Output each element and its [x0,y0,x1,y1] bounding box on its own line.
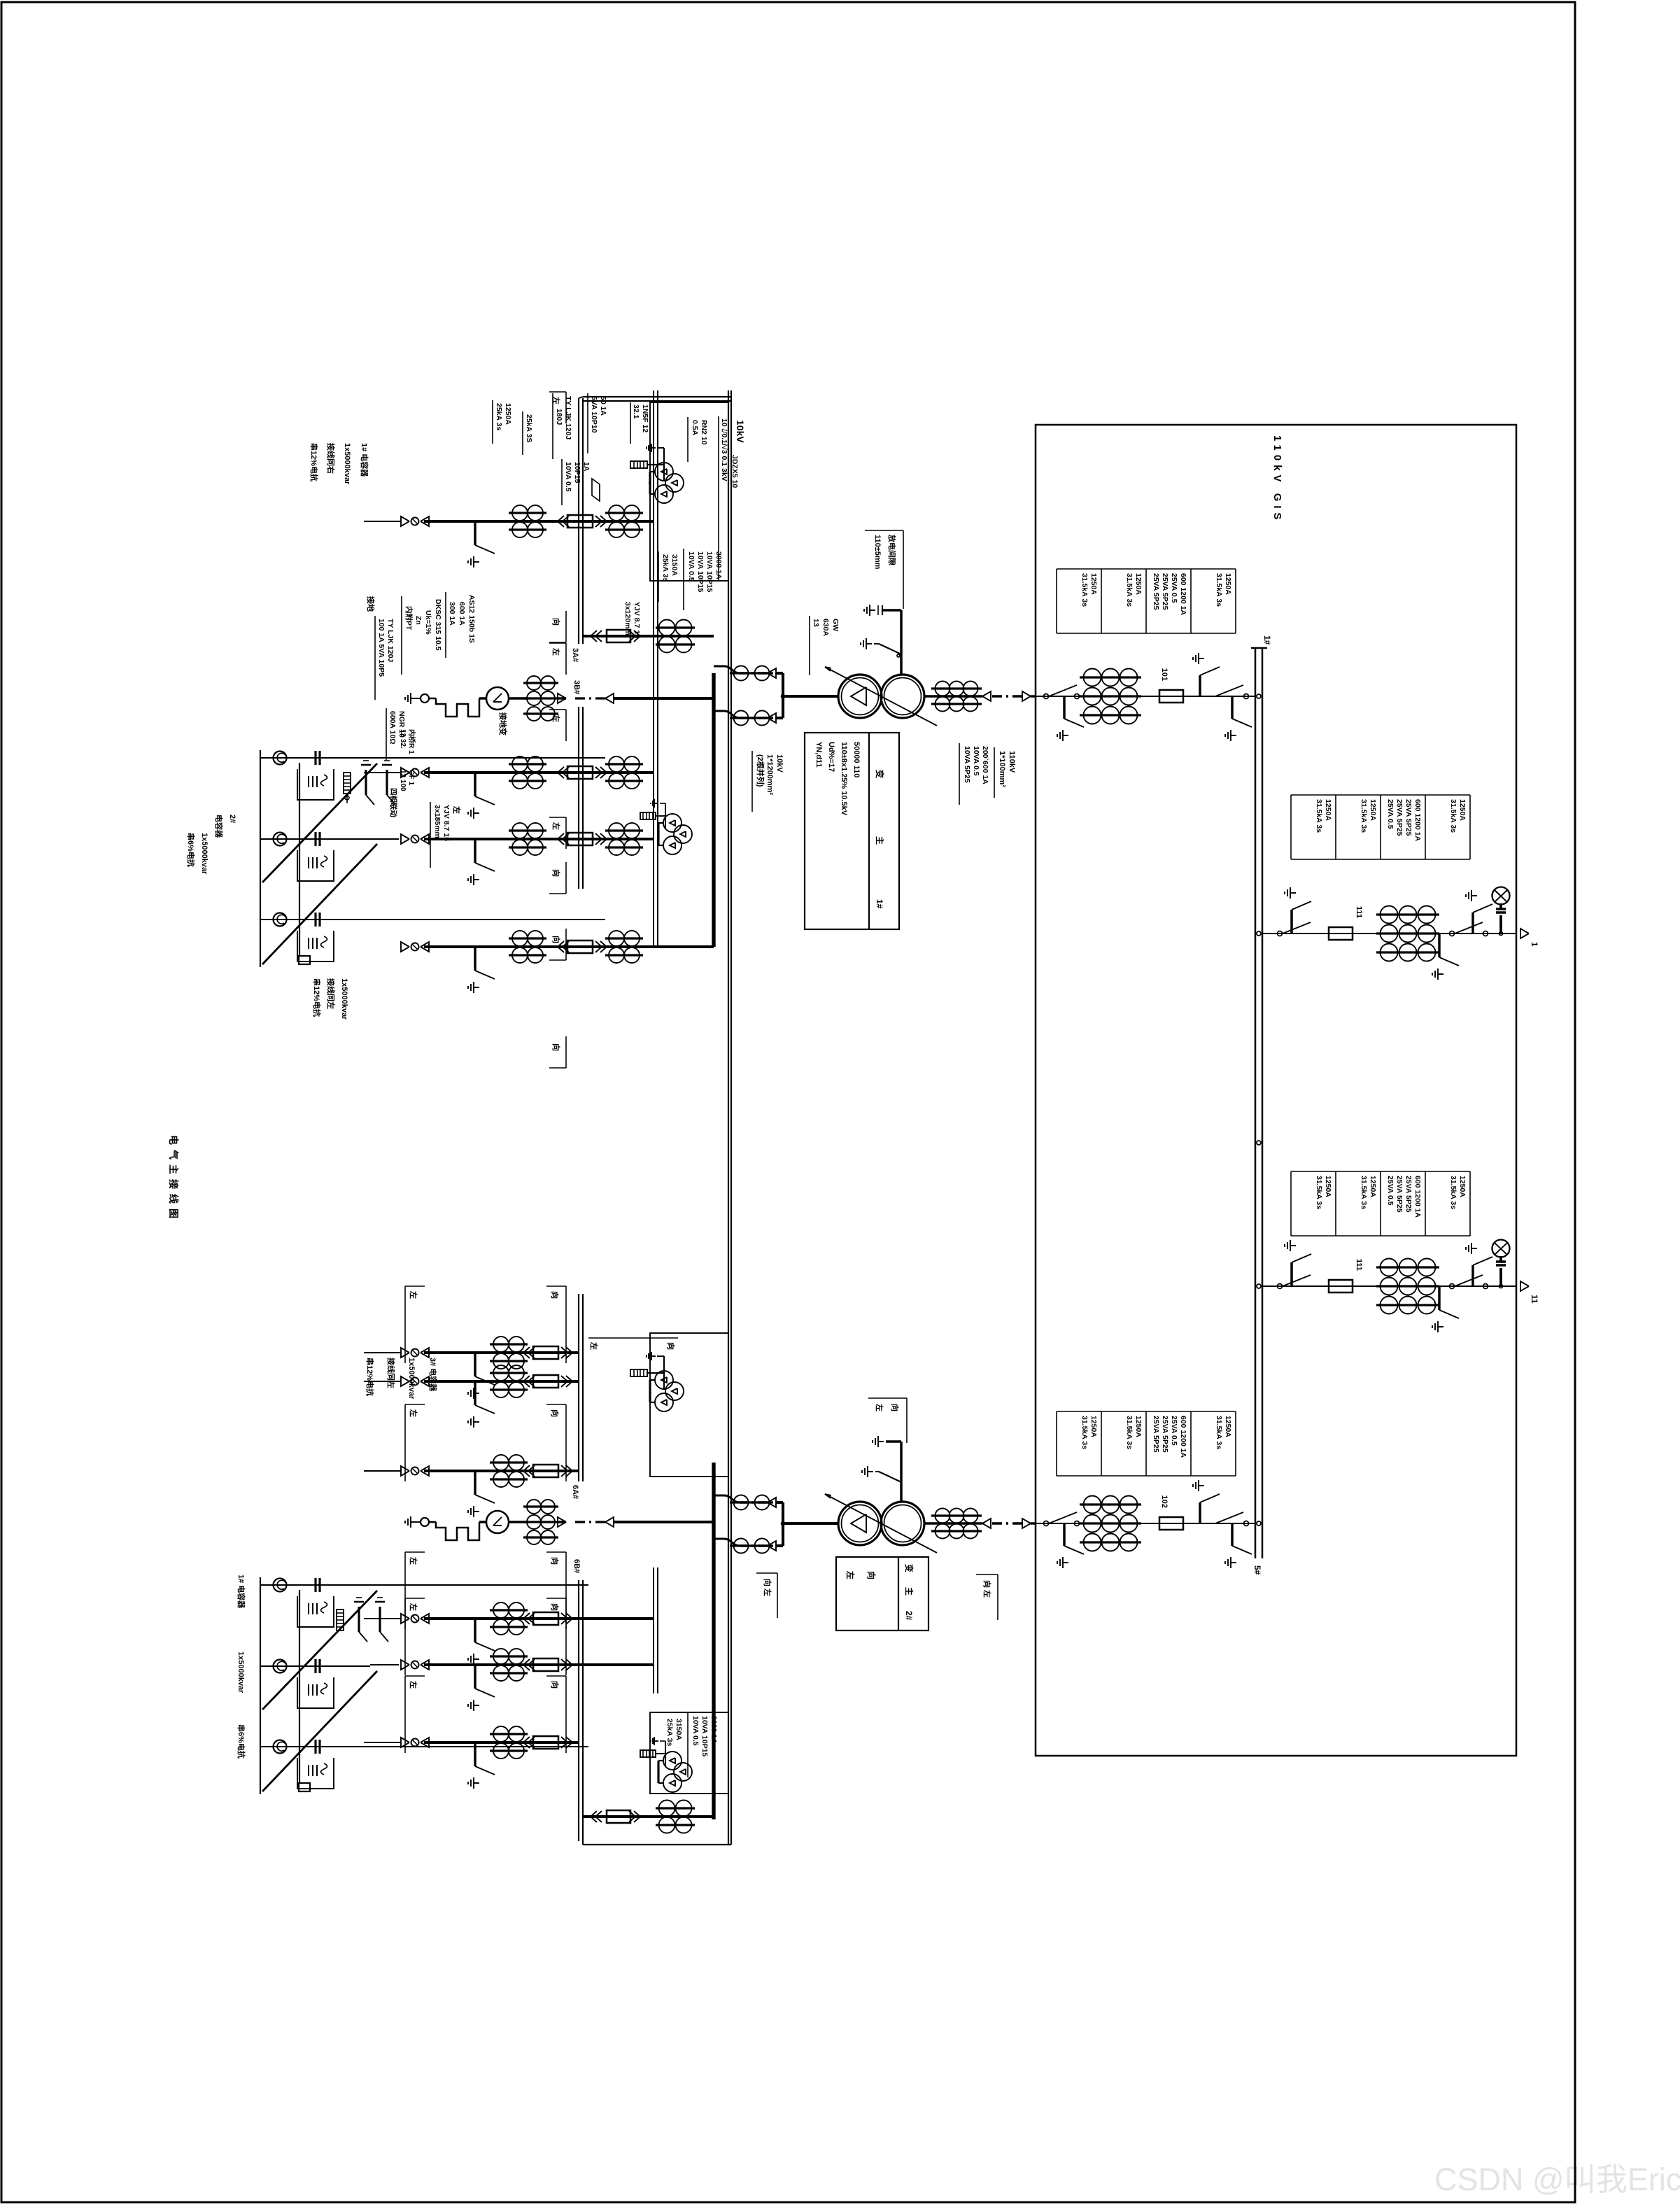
PT cluster arrester ground [665,1741,666,1766]
cable termination transformer side [982,691,991,701]
earthing transformer bay wire [614,697,714,700]
disconnector 2 tx bay 102 [1075,1521,1080,1526]
feeder drawout breaker [566,1659,572,1670]
wire 110kV line bay 11 riser [1262,1285,1516,1287]
tap changer arrow 2# [825,1494,937,1553]
svg-text:左: 左 [875,1403,884,1411]
svg-text:接线同左: 接线同左 [326,978,336,1009]
svg-text:左: 左 [845,1570,856,1579]
feeder drawout breaker [566,1347,572,1358]
neutral earthing disconnector [879,644,901,654]
capacitor bank phase 2 reactor bars [316,1684,318,1696]
svg-text:110kV: 110kV [1008,751,1016,773]
svg-text:600 1200 1A: 600 1200 1A [1179,573,1187,616]
svg-text:25kA 3S: 25kA 3S [525,414,533,442]
feeder tail wire [364,1470,401,1472]
svg-text:接地变: 接地变 [498,712,508,735]
spec label cell [1191,1411,1236,1412]
10kV cable S-entry into switchgear [714,1539,740,1546]
capacitor bank inner rail with tail fuse [299,1590,300,1783]
feeder ct pair upper [605,937,643,939]
110kV cable dash-dot [991,695,1022,697]
earthing transformer circle [509,1521,528,1523]
svg-text:1# 电容器: 1# 电容器 [360,443,369,477]
svg-text:3x185mm²: 3x185mm² [433,805,442,841]
label frame zuo [404,1404,406,1481]
PT fuse crosshatch II [630,1369,647,1376]
svg-text:AS12 150b 1S: AS12 150b 1S [467,595,476,643]
svg-text:31.5kA 3s: 31.5kA 3s [1125,1416,1134,1449]
svg-text:四相联动: 四相联动 [389,788,398,817]
svg-text:串6%电抗: 串6%电抗 [237,1724,246,1759]
feeder earthing switch [474,1665,476,1689]
cable termination at GIS side [1031,1522,1036,1524]
svg-text:1x5000kvar: 1x5000kvar [340,978,348,1020]
label frame xiang-zuo PT cell II [588,1337,678,1339]
10kV switchgear enclosure top edge double line [730,390,732,1845]
svg-text:3000 1A: 3000 1A [710,1716,718,1744]
svg-text:左: 左 [409,1290,418,1299]
capacitor bank phase 1 reactor bars [316,1603,318,1614]
svg-text:CSDN @叫我Eric: CSDN @叫我Eric [1434,2162,1680,2197]
capacitor bank phase 2 riser [260,838,377,840]
current transformers bay 1 [1376,913,1439,915]
capacitor bank phase 3 discharge coil [274,913,287,927]
feeder ct pair lower [490,1733,528,1735]
bus riser bay wire [583,1815,714,1818]
110kV cable dash-dot [991,1522,1022,1524]
svg-text:GF 1: GF 1 [407,770,415,786]
svg-text:32.1: 32.1 [632,404,640,419]
ground switch right bay 11 [1438,1286,1440,1310]
riser drawout breaker [591,630,597,642]
feeder drawout breaker [600,941,607,952]
ground switch a tx bay 102 [1231,1523,1233,1546]
svg-text:1250A: 1250A [1369,799,1377,821]
svg-text:10VA 10P15: 10VA 10P15 [696,551,705,593]
capacitor bank phase 2 capacitor [318,1659,320,1673]
svg-text:3150A: 3150A [670,554,679,576]
busbar junction node [1257,694,1261,698]
10kV cable termination arrow [776,672,783,675]
feeder bay wire [424,1617,654,1620]
svg-text:50 1A: 50 1A [599,396,607,416]
disconnector tx bay 101 [1244,694,1249,699]
svg-text:10kV: 10kV [735,420,746,443]
PT three-phase trefoil I [665,474,684,492]
PT arrester and ground I [647,464,664,465]
line exit arrow 11 [1520,1281,1529,1291]
10kV cable dash-dot drop [740,1544,768,1547]
feeder earthing switch [474,773,476,796]
PT cell box 6B end [650,1712,728,1794]
bus riser bay wire [583,635,714,637]
capacitor bank phase 1 discharge coil [274,1579,287,1592]
disconnector line bay 11 [1283,1275,1311,1286]
10kV main busbar section I [712,673,715,947]
PT trefoil cluster [674,825,692,843]
svg-text:101: 101 [1160,668,1169,681]
svg-text:1250A: 1250A [1089,573,1098,595]
svg-text:10kV: 10kV [775,754,784,773]
svg-text:内桥R 1: 内桥R 1 [407,729,416,754]
svg-text:向 左: 向 左 [763,1579,772,1596]
svg-text:向: 向 [866,1571,877,1579]
svg-text:1x5000kvar: 1x5000kvar [407,1358,416,1400]
svg-text:3A#: 3A# [571,648,579,662]
surge arrester bay 11 [1499,1285,1503,1288]
capacitor bank phase 3 riser [260,1746,588,1747]
spec label cell [1425,794,1470,796]
feeder cable termination [421,1660,429,1670]
svg-text:变: 变 [904,1564,915,1572]
neutral grounding resistor meander [479,1521,486,1523]
svg-text:YJV 8.7 15: YJV 8.7 15 [633,602,641,638]
earthing tx cable termination lower [558,1517,566,1527]
capacitor bank inner rail with tail fuse [299,763,300,956]
svg-text:11: 11 [1530,1295,1539,1304]
feeder ct pair lower [509,763,546,765]
10kV cable S-entry into switchgear [714,711,740,718]
svg-text:600 1200 1A: 600 1200 1A [1413,1176,1422,1218]
capacitor bank phase 3 capacitor [318,1740,320,1754]
disconnector 2 bay 1 [1450,931,1455,936]
svg-text:向: 向 [550,1681,560,1689]
capacitor bank phase 2 riser [260,1665,370,1667]
earthing tx cable termination lower [558,693,566,703]
svg-text:25VA 0.5: 25VA 0.5 [1170,573,1178,603]
feeder bay wire [424,945,714,948]
capacitor bank phase 2 bracket loop [297,1677,334,1708]
svg-text:(2根并列): (2根并列) [756,754,765,787]
svg-text:左: 左 [452,805,462,814]
svg-text:1250A: 1250A [1134,573,1143,595]
svg-text:3000 1A: 3000 1A [714,551,723,579]
svg-text:1# 电容器: 1# 电容器 [237,1575,246,1609]
main transformer 2# LV winding circle [838,1502,882,1545]
svg-text:180J: 180J [555,409,563,425]
svg-text:向 左: 向 左 [982,1580,992,1598]
feeder earthing switch [474,1471,476,1495]
svg-text:10P15: 10P15 [573,462,581,484]
10kV PT cell box I [650,402,728,581]
feeder cable termination [421,1348,429,1358]
wire 110kV line bay 1 riser [1262,933,1516,934]
svg-text:31.5kA 3s: 31.5kA 3s [1080,1416,1089,1449]
neutral discharge gap branch [882,609,901,611]
svg-text:3# 电容器: 3# 电容器 [428,1358,438,1392]
svg-text:10VA 0.5: 10VA 0.5 [687,551,696,582]
svg-text:0.5A: 0.5A [691,420,699,436]
label frame zuo [404,1552,406,1629]
svg-text:111: 111 [1355,906,1363,918]
svg-text:12 100: 12 100 [399,770,407,791]
spec label cell [1146,568,1191,570]
svg-text:31.5kA 3s: 31.5kA 3s [1125,573,1134,607]
PT arrester and ground II [647,1372,664,1374]
svg-text:向: 向 [550,1291,560,1299]
label frame xiang [565,1404,567,1481]
current transformers 110kV side [931,1514,982,1516]
svg-text:左: 左 [551,647,561,656]
svg-text:1250A: 1250A [1224,573,1232,595]
label frame xiang [565,1036,567,1068]
busbar junction node [1257,1284,1261,1288]
current transformers tx bay 102 [1080,1503,1141,1505]
10kV cable dash-dot drop [740,1501,768,1503]
svg-text:10 ⌰0.1/√3 0.1 3kV: 10 ⌰0.1/√3 0.1 3kV [720,418,728,481]
capacitor bank bottom rail [260,750,261,967]
feeder cable termination [421,1376,429,1386]
feeder cable termination [421,1614,429,1623]
label frame xiang [565,1676,567,1753]
earthing tx cable dash-dot [574,1521,605,1523]
svg-text:串12%电抗: 串12%电抗 [365,1358,375,1396]
capacitor bank phase 1 bracket loop [297,1596,334,1627]
cable termination at GIS side [1031,695,1036,697]
busbar left end cap [1251,647,1267,649]
neutral grounding resistor meander [479,697,486,699]
10kV cable S-entry into switchgear [714,1495,740,1502]
10kV switchgear right edge [583,1844,731,1845]
capacitor bank phase 1 riser [260,757,605,759]
capacitor bank phase tie zigzag A [262,763,377,882]
cable termination transformer side [982,1519,991,1528]
svg-text:110±5mm: 110±5mm [873,535,882,570]
capacitor bank phase 1 bracket loop [297,769,334,800]
svg-text:600 1A: 600 1A [458,602,466,626]
svg-text:电气主接线图: 电气主接线图 [168,1135,179,1223]
svg-text:左: 左 [551,822,561,830]
svg-text:内附PT: 内附PT [404,606,414,630]
10kV cable dash-dot drop [740,672,768,674]
feeder ct pair lower [509,512,546,514]
svg-text:6A#: 6A# [571,1485,579,1499]
svg-text:3150A: 3150A [675,1719,683,1740]
feeder drawout breaker [566,1737,572,1748]
feeder earthing switch [474,1353,476,1376]
spec label cell [1291,1171,1336,1172]
svg-text:600A 10Ω: 600A 10Ω [388,711,397,745]
svg-text:3B#: 3B# [572,680,581,694]
svg-text:向: 向 [890,1404,900,1411]
feeder bay wire [424,1470,579,1472]
svg-text:接地: 接地 [366,596,376,612]
svg-text:31.5kA 3s: 31.5kA 3s [1215,1416,1223,1449]
spec label cell [1291,794,1336,796]
wire transformer bay riser 102 [1036,1523,1255,1524]
svg-text:1250A: 1250A [1089,1416,1098,1437]
delta winding symbol 1# [851,687,866,705]
svg-text:主: 主 [904,1587,915,1595]
svg-text:1250A: 1250A [1324,1176,1332,1197]
svg-text:110±8x1.25% 10.5kV: 110±8x1.25% 10.5kV [840,742,848,816]
spec label cell [1381,794,1425,796]
feeder bay wire [424,1351,579,1354]
feeder tail wire [364,1381,401,1382]
svg-text:10VA 0.5: 10VA 0.5 [564,462,572,492]
feeder 1199 link to capacitor bank 2 [377,838,399,840]
svg-text:31.5kA 3s: 31.5kA 3s [1215,573,1223,607]
earthing tx cable dash-dot [574,697,605,699]
svg-text:10VA 0.5: 10VA 0.5 [691,1716,700,1746]
spec label cell [1101,1411,1146,1412]
feeder ct pair upper [605,829,643,831]
tap changer arrow 1# [825,667,937,726]
svg-text:左: 左 [589,1341,599,1350]
svg-text:25VA 5P25: 25VA 5P25 [1152,1416,1160,1453]
10kV PT cell box II [650,1333,728,1477]
capacitor bank phase 3 reactor bars [316,1765,318,1776]
label frame xiang [565,1598,567,1675]
PT three-phase trefoil II [665,1382,684,1400]
feeder bay wire [424,1741,579,1744]
PT cluster fuse [640,812,656,819]
label frame xiang [565,862,567,894]
capacitor bank phase 1 capacitor [318,751,320,765]
feeder drawout breaker [600,767,607,778]
svg-text:向: 向 [551,1043,561,1051]
label frame zuo [404,1676,406,1753]
svg-text:12 32.: 12 32. [399,729,407,749]
svg-text:1*100mm²: 1*100mm² [998,751,1006,787]
svg-text:JDZX5 10: JDZX5 10 [730,455,739,488]
neutral earthing disconnector tx2 [879,1472,901,1482]
svg-text:10VA 5P25: 10VA 5P25 [963,746,971,783]
svg-text:TY LJK 120J: TY LJK 120J [386,619,395,662]
svg-text:600 1200 1A: 600 1200 1A [1179,1416,1187,1458]
capacitor bank phase 3 discharge coil [274,1740,287,1754]
bank 1b linkage switches cluster [379,1607,381,1632]
svg-text:向: 向 [550,1409,560,1417]
delta winding symbol 2# [851,1514,866,1533]
svg-text:10VA 10P15: 10VA 10P15 [705,551,714,593]
svg-text:25kA 3s: 25kA 3s [661,554,670,582]
10kV lower bus segment 6A [582,1294,584,1481]
spec label cell [1381,1171,1425,1172]
cell rail double line section II short [657,1568,658,1693]
110kV busbar I (double line) [1262,648,1264,1558]
busbar junction node [1257,1141,1261,1145]
label frame xiang-zuo 110kV cable of tx2 [997,1575,998,1620]
earthing tx current transformers [523,682,558,684]
capacitor bank phase 2 reactor bars [316,857,318,868]
svg-text:YJV 8.7 15: YJV 8.7 15 [442,805,451,841]
svg-text:31.5kA 3s: 31.5kA 3s [1080,573,1089,607]
svg-text:电容器: 电容器 [214,815,224,838]
ground switch left of disconnector bay 11 [1290,1262,1292,1286]
bank 2 linkage switches cluster [386,770,388,795]
svg-text:串12%电抗: 串12%电抗 [312,978,322,1017]
svg-text:Uk=1%: Uk=1% [424,610,432,635]
svg-text:10VA 0.5: 10VA 0.5 [972,746,980,776]
breaker 102 tx bay [1159,1517,1183,1530]
feeder ct pair lower [490,1343,528,1345]
svg-text:接线同右: 接线同右 [326,443,336,474]
10kV lead from transformer [783,1522,838,1525]
10kV cable S-entry into switchgear [714,666,740,673]
svg-text:25VA 5P25: 25VA 5P25 [1152,573,1160,610]
label discharge gap 110+-5mm [865,530,903,531]
feeder ct pair lower [490,1461,528,1463]
svg-text:25VA 5P25: 25VA 5P25 [1404,1176,1413,1213]
current transformers tx bay 101 [1080,676,1141,678]
label frame xiang [565,611,567,642]
label frame xiang [565,929,567,960]
current transformers on 10kV cables [730,1501,773,1503]
spec label cell [1146,1411,1191,1412]
disconnector 2 bay 11 [1450,1284,1455,1289]
earthing tx cable termination upper [605,693,614,703]
svg-text:1250A: 1250A [1134,1416,1143,1437]
ground switch c tx bay 101 [1063,696,1065,719]
svg-text:25VA 0.5: 25VA 0.5 [1386,1176,1395,1206]
svg-text:1#: 1# [1262,635,1272,645]
svg-text:1250A: 1250A [1369,1176,1377,1197]
10kV cable dash-dot drop [740,717,768,719]
svg-text:25kA 3s: 25kA 3s [665,1719,674,1746]
NGR tail circle and ground [429,1521,436,1523]
feeder bay wire [424,1663,654,1666]
busbar junction node [1257,1521,1261,1526]
svg-text:向: 向 [551,869,561,877]
svg-text:向: 向 [550,1557,560,1565]
capacitor bank phase 1 discharge coil [274,752,287,765]
current transformers 110kV side [931,687,982,689]
svg-text:1250A: 1250A [1458,799,1467,821]
surge arrester bay 1 [1499,932,1503,936]
svg-text:1250A: 1250A [1224,1416,1232,1437]
svg-text:向: 向 [551,618,561,626]
capacitor bank phase 1 capacitor [318,1578,320,1592]
capacitor bank phase 2 bracket loop [297,850,334,881]
svg-text:1N5F 12: 1N5F 12 [641,404,649,432]
svg-text:1250A: 1250A [504,403,512,425]
feeder cable termination [421,1738,429,1747]
feeder drawout breaker [566,1376,572,1387]
svg-text:主: 主 [875,836,885,845]
svg-text:5#: 5# [1252,1565,1262,1575]
current transformers bay 11 [1376,1266,1439,1268]
spec label cell [1191,568,1236,570]
feeder cable termination [421,942,429,952]
svg-text:YN,d11: YN,d11 [814,742,823,768]
svg-text:变: 变 [875,770,885,778]
busbar junction node [1257,931,1261,936]
feeder bay wire [424,520,654,523]
svg-text:31.5kA 3s: 31.5kA 3s [1360,1176,1368,1209]
spec box main transformer 2 [836,1557,929,1630]
label frame zuo [404,1286,406,1363]
10kV switchgear left edge double line [583,396,731,397]
svg-text:向: 向 [550,1603,560,1611]
feeder ct pair lower [509,937,546,939]
capacitor bank bottom rail [260,1577,261,1794]
feeder tail wire [364,1618,401,1619]
svg-text:25VA 0.5: 25VA 0.5 [1170,1416,1178,1446]
10kV lower bus segment 3A [582,398,584,644]
capacitor bank phase 3 bracket loop [297,1758,334,1789]
breaker 101 tx bay [1159,690,1183,703]
transformer 1 neutral wire [900,610,902,675]
10kV cable termination arrow [776,1544,783,1547]
svg-text:25VA 0.5: 25VA 0.5 [1386,799,1395,829]
10kV main busbar section II [712,1463,715,1819]
svg-text:300 1A: 300 1A [448,602,456,626]
ground switch b tx bay 102 [1199,1502,1201,1523]
svg-text:GW: GW [831,619,840,631]
spec label cell [1057,1411,1101,1412]
